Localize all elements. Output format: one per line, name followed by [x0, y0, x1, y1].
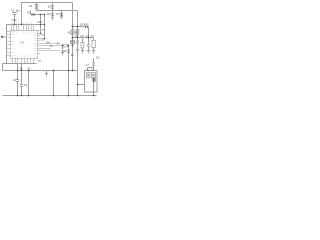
pin names inside IC — [11, 30, 37, 58]
diode D2 — [52, 3, 54, 6]
node arrow left — [1, 35, 4, 38]
svg-text:D3: D3 — [47, 12, 51, 16]
IC bottom pins — [13, 59, 34, 64]
capacitor C7 chain — [93, 58, 95, 63]
svg-text:C6: C6 — [86, 34, 90, 38]
diode D6 — [85, 26, 88, 29]
diode D1 — [32, 13, 35, 16]
wire y14 — [31, 14, 45, 16]
wire vertical x72 — [72, 3, 74, 71]
wire drop to VCC rail — [21, 3, 23, 25]
wire drop x40 — [40, 15, 42, 34]
led D3 — [52, 11, 54, 13]
inner box 1 — [87, 73, 90, 78]
diode D4 — [61, 11, 63, 13]
wire node line y37 — [73, 37, 94, 39]
diode D2 symbol — [51, 5, 54, 8]
resistor R2 — [71, 30, 74, 35]
IC top pins — [12, 25, 34, 31]
zener D5 — [67, 50, 69, 53]
svg-text:1k: 1k — [50, 44, 53, 48]
labels — [11, 4, 99, 87]
svg-text:3V3: 3V3 — [38, 20, 43, 24]
crystal box X1 — [93, 38, 95, 41]
wire left drop — [2, 64, 4, 71]
wire second rail — [37, 10, 78, 12]
left pin bus — [6, 25, 8, 64]
svg-text:VCC: VCC — [11, 18, 17, 22]
crystal cap line 2 — [21, 64, 23, 85]
IC left pins — [7, 32, 11, 56]
wire branch y26 — [73, 26, 85, 28]
wire inside box — [93, 82, 95, 93]
resistor R3 — [76, 30, 79, 35]
component box C5 — [82, 38, 84, 43]
svg-text:X2: X2 — [28, 67, 32, 71]
capacitor C1 — [13, 12, 17, 14]
svg-text:R4: R4 — [47, 41, 51, 45]
wire stub — [30, 11, 32, 15]
wire top rail — [21, 2, 73, 4]
svg-text:R6: R6 — [63, 49, 67, 53]
relay box — [85, 71, 98, 93]
svg-text:D2: D2 — [48, 5, 52, 9]
svg-text:D1: D1 — [27, 11, 31, 15]
resistor R6 — [63, 44, 68, 47]
svg-text:X1: X1 — [91, 34, 95, 38]
wire bottom pin line — [3, 63, 37, 65]
svg-text:C2: C2 — [13, 78, 17, 82]
wire bottom rail — [3, 95, 97, 97]
wire ground line — [3, 70, 78, 72]
svg-text:C5: C5 — [80, 34, 84, 38]
diode D4 symbol — [60, 13, 63, 19]
pin numbers above rail — [11, 22, 32, 24]
led D3 symbol — [51, 13, 54, 20]
svg-text:S1: S1 — [96, 56, 100, 60]
wire stub to rail — [93, 92, 95, 96]
svg-text:D4: D4 — [56, 12, 60, 16]
specks inside inner boxes — [87, 74, 94, 77]
svg-text:R1: R1 — [29, 4, 33, 8]
ground — [76, 49, 79, 51]
capacitor C6 — [87, 44, 90, 46]
IC1 body — [11, 31, 38, 59]
wire drop x44 — [44, 15, 46, 39]
polarity marks in connector circle — [71, 41, 73, 42]
ground mid — [46, 71, 48, 74]
wire into box — [78, 84, 85, 86]
svg-text:Z1: Z1 — [71, 53, 75, 57]
resistor R1 — [35, 5, 38, 10]
svg-text:C1 10u: C1 10u — [11, 9, 20, 13]
wire vertical x53 — [53, 71, 55, 96]
junction dots — [14, 14, 95, 97]
wire vertical x68 — [68, 46, 70, 96]
capacitor C4 — [76, 40, 79, 42]
svg-text:R3: R3 — [74, 31, 78, 35]
inner box 2 — [91, 73, 95, 78]
ground x62 — [62, 46, 64, 53]
connector circle — [70, 40, 74, 44]
svg-text:TX: TX — [57, 42, 61, 46]
wire x88 down — [88, 27, 90, 45]
wire y67 — [88, 67, 94, 69]
wire VCC rail — [7, 24, 45, 26]
wire vertical x77 — [77, 11, 79, 96]
svg-text:IC1: IC1 — [21, 40, 26, 44]
svg-text:C4: C4 — [75, 34, 79, 38]
svg-text:R2: R2 — [68, 31, 72, 35]
net labels right of IC — [38, 29, 45, 61]
svg-text:X1: X1 — [20, 67, 24, 71]
svg-text:C3: C3 — [24, 83, 28, 87]
IC right pins — [38, 31, 63, 54]
crystal cap line 1 — [17, 64, 19, 80]
wire vertical x36 — [36, 3, 38, 11]
coil dark — [93, 78, 96, 82]
svg-text:C7: C7 — [86, 63, 90, 67]
svg-text:D5 BAT: D5 BAT — [80, 23, 89, 27]
wire vertical x28 — [28, 71, 30, 96]
